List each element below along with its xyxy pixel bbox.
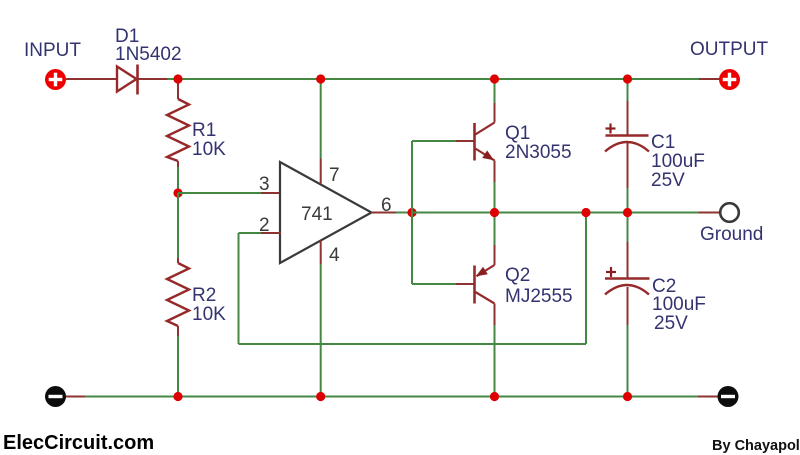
- pin number 2: [259, 215, 270, 236]
- svg-text:Q2: Q2: [505, 265, 530, 286]
- node B junction R1-R2: [173, 188, 182, 197]
- label C1 value 100uF: [651, 151, 705, 172]
- label D1: [115, 26, 139, 47]
- pin number 6: [381, 195, 392, 216]
- wire mid rail node D to Q1 emitter: [412, 212, 495, 214]
- svg-text:R1: R1: [192, 120, 216, 141]
- label Q1 type 2N3055: [505, 142, 572, 163]
- pin number 7: [329, 165, 340, 186]
- svg-text:OUTPUT: OUTPUT: [690, 39, 769, 60]
- capacitor C1: [605, 124, 649, 152]
- svg-text:ElecCircuit.com: ElecCircuit.com: [3, 432, 154, 454]
- junction dot mid rail C1: [623, 208, 632, 217]
- pin 7 wire from top rail: [320, 79, 322, 184]
- junction dot top rail node A: [173, 74, 182, 83]
- wire bottom rail C2 to negative right: [628, 396, 718, 398]
- terminal OUTPUT plus: [719, 69, 740, 90]
- svg-text:INPUT: INPUT: [24, 40, 81, 61]
- wire Q2 base: [412, 283, 474, 285]
- svg-text:4: 4: [329, 245, 340, 266]
- wire top rail node A to pin7 riser: [178, 78, 321, 80]
- svg-text:100uF: 100uF: [652, 294, 706, 315]
- wire top rail pin7 riser to Q1 collector riser: [321, 78, 495, 80]
- junction dot bottom rail R2: [173, 392, 182, 401]
- pin 2 wire and feedback net to output node: [239, 213, 587, 345]
- wire input terminal to D1 anode: [66, 78, 116, 80]
- wire stub to OUTPUT terminal: [699, 78, 720, 80]
- footer credit By Chayapol: [712, 438, 800, 454]
- label Q2 type MJ2555: [505, 286, 573, 307]
- wire R2 top lead: [177, 258, 179, 263]
- wire top rail Q1 collector to C1: [495, 78, 628, 80]
- wire base riser Q2: [411, 213, 413, 285]
- label OUTPUT: [690, 39, 769, 60]
- junction dot top rail pin7: [316, 74, 325, 83]
- wire top rail C1 to output stub: [628, 78, 700, 80]
- wire stub to ground terminal: [699, 212, 721, 214]
- label C2 voltage 25V: [654, 313, 688, 334]
- svg-text:100uF: 100uF: [651, 151, 705, 172]
- svg-text:Ground: Ground: [700, 224, 763, 245]
- junction dot top rail C1: [623, 74, 632, 83]
- label Q2: [505, 265, 530, 286]
- junction dot top rail Q1 collector: [490, 74, 499, 83]
- label R2 value 10K: [192, 304, 226, 325]
- label Q1: [505, 123, 530, 144]
- wire negative left stub: [66, 396, 178, 398]
- label R1: [192, 120, 216, 141]
- wire D1 cathode to node A: [139, 78, 179, 80]
- label Ground: [700, 224, 763, 245]
- svg-text:6: 6: [381, 195, 392, 216]
- op-amp U1 741: [280, 162, 372, 263]
- wire R1 top lead: [177, 79, 179, 99]
- diode D1: [117, 65, 138, 95]
- svg-text:By Chayapol: By Chayapol: [712, 438, 800, 454]
- label INPUT: [24, 40, 81, 61]
- wire Q2 collector to bottom rail: [494, 304, 496, 397]
- junction dot bottom rail Q2: [490, 392, 499, 401]
- label 1N5402: [115, 44, 182, 65]
- svg-text:3: 3: [259, 174, 270, 195]
- wire node B to R2: [177, 193, 179, 258]
- svg-text:25V: 25V: [654, 313, 688, 334]
- label R2: [192, 285, 216, 306]
- label R1 value 10K: [192, 139, 226, 160]
- svg-text:MJ2555: MJ2555: [505, 286, 573, 307]
- wire bottom rail Q2 to C2: [495, 396, 628, 398]
- svg-text:10K: 10K: [192, 139, 226, 160]
- pin number 3: [259, 174, 270, 195]
- svg-text:741: 741: [301, 204, 333, 225]
- terminal negative right: [718, 386, 739, 407]
- transistor Q2: [475, 265, 495, 304]
- terminal negative left: [45, 386, 66, 407]
- wire mid rail feedback node to C1: [586, 212, 628, 214]
- resistor R1: [167, 99, 189, 161]
- svg-text:2N3055: 2N3055: [505, 142, 572, 163]
- pin 6 wire from op-amp output: [371, 212, 412, 214]
- svg-text:R2: R2: [192, 285, 216, 306]
- junction dot mid rail feedback: [581, 208, 590, 217]
- pin number 4: [329, 245, 340, 266]
- footer site name ElecCircuit.com: [3, 432, 154, 454]
- wire node B to op-amp pin 3: [178, 192, 281, 194]
- wire C1 top lead: [627, 79, 629, 135]
- wire Q1 base: [412, 140, 474, 142]
- wire bottom rail pin4 to Q2 collector: [321, 396, 495, 398]
- capacitor C2: [605, 267, 650, 295]
- pin 4 wire to bottom rail: [320, 241, 322, 397]
- label C1 voltage 25V: [651, 170, 685, 191]
- wire C2 bottom lead to bottom rail: [627, 287, 629, 397]
- label C2 value 100uF: [652, 294, 706, 315]
- wire Q1 emitter to mid rail: [494, 161, 496, 213]
- wire base riser Q1: [411, 141, 413, 213]
- node D junction op-amp output: [407, 208, 416, 217]
- svg-text:25V: 25V: [651, 170, 685, 191]
- junction dot bottom rail C2: [623, 392, 632, 401]
- wire Q2 emitter to mid rail: [494, 213, 496, 266]
- transistor Q1: [475, 123, 495, 161]
- junction dot mid rail Q1 emitter: [490, 208, 499, 217]
- ground terminal: [720, 203, 739, 222]
- resistor R2: [167, 263, 189, 326]
- label C2: [652, 276, 676, 297]
- wire C2 top lead: [627, 213, 629, 278]
- terminal INPUT plus: [45, 69, 66, 90]
- label C1: [651, 132, 675, 153]
- svg-text:1N5402: 1N5402: [115, 44, 182, 65]
- svg-text:10K: 10K: [192, 304, 226, 325]
- wire Q1 collector to top rail: [494, 79, 496, 123]
- wire R1 bottom lead to node B: [177, 161, 179, 193]
- wire bottom rail R2 to pin4: [178, 396, 321, 398]
- svg-text:2: 2: [259, 215, 270, 236]
- svg-text:7: 7: [329, 165, 340, 186]
- wire R2 bottom lead to bottom rail: [177, 326, 179, 397]
- wire mid rail Q1 emitter to feedback node: [495, 212, 587, 214]
- svg-text:Q1: Q1: [505, 123, 530, 144]
- wire C1 bottom lead to mid rail: [627, 143, 629, 213]
- wire mid rail C1 to ground stub: [628, 212, 699, 214]
- svg-text:C1: C1: [651, 132, 675, 153]
- junction dot bottom rail pin4: [316, 392, 325, 401]
